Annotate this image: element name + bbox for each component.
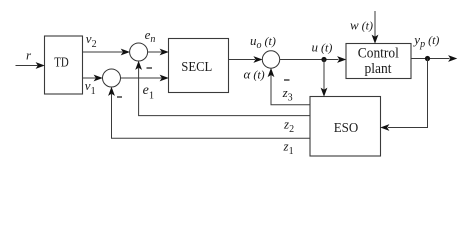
- wire v1: [83, 75, 103, 82]
- wire alpha junction to Control plant: [280, 56, 347, 63]
- block Control plant: [346, 44, 411, 79]
- minus at alpha junction: [284, 79, 290, 81]
- svg-text:SECL: SECL: [181, 60, 212, 75]
- wire e_1 to SECL: [121, 75, 169, 82]
- wire u to ESO: [321, 60, 328, 97]
- block SECL: [169, 39, 229, 93]
- wire y_p feedback to ESO: [380, 59, 427, 131]
- svg-text:ESO: ESO: [334, 121, 359, 136]
- node u junction dot: [321, 57, 326, 62]
- svg-text:plant: plant: [365, 61, 392, 77]
- wire SECL to alpha junction: [229, 56, 263, 63]
- wire v2: [83, 49, 130, 56]
- wire y_p output: [411, 55, 457, 62]
- block TD: [45, 36, 83, 94]
- minus at e_1 junction: [117, 96, 122, 98]
- wire w disturbance: [372, 11, 379, 44]
- svg-text:u (t): u (t): [312, 40, 333, 55]
- summing junction e_n: [130, 43, 148, 61]
- svg-text:w (t): w (t): [350, 18, 373, 33]
- block ESO: [310, 97, 381, 157]
- summing junction e_1: [103, 69, 121, 87]
- minus at e_n junction: [147, 67, 153, 69]
- wire r input: [16, 62, 45, 69]
- wire z3 feedback: [268, 68, 310, 105]
- summing junction alpha: [262, 51, 279, 68]
- wire e_n to SECL: [148, 49, 169, 56]
- wire z1 feedback: [108, 87, 310, 139]
- node y_p junction dot: [425, 56, 430, 61]
- wire z2 feedback: [135, 61, 310, 116]
- svg-text:TD: TD: [54, 54, 69, 69]
- svg-text:Control: Control: [358, 46, 399, 62]
- svg-text:α (t): α (t): [244, 67, 265, 82]
